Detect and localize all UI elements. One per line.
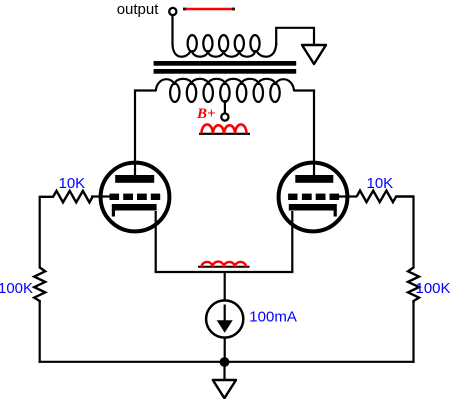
triode V1 plate lead [134, 161, 136, 176]
junction dot [220, 357, 230, 367]
transformer T1 primary winding [156, 79, 294, 91]
wire left vertical bottom [39, 302, 41, 363]
triode V1 grid [110, 194, 161, 200]
wire V2 cathode to bus [291, 211, 293, 272]
svg-text:100mA: 100mA [249, 309, 297, 326]
wire primary left end to V1 plate [135, 91, 156, 163]
annotation red line secondary highlight [183, 8, 235, 10]
transformer T1 secondary winding [173, 44, 277, 57]
wire right vertical bottom [412, 302, 414, 363]
annotation primary-half highlight underline [199, 133, 250, 135]
annotation red arches B+ [202, 124, 247, 133]
annotation red arches cathode [202, 262, 247, 267]
resistor R4 100K [408, 267, 419, 303]
triode V2 plate [295, 175, 333, 183]
cathode bus wire [155, 271, 294, 273]
svg-text:10K: 10K [367, 175, 394, 192]
current source I1 [206, 300, 243, 337]
triode V2 cathode [289, 204, 337, 217]
transformer core [154, 61, 297, 74]
ground top right [302, 45, 326, 64]
annotation cathode highlight underline [198, 266, 250, 268]
svg-text:100K: 100K [0, 280, 33, 297]
wire right vertical top [412, 195, 414, 268]
output terminal [169, 8, 176, 15]
svg-text:B+: B+ [196, 106, 216, 122]
triode V2 grid [288, 194, 339, 200]
triode V1 envelope [101, 163, 170, 232]
resistor R1 10K [40, 191, 93, 203]
wire V1 cathode to bus [155, 211, 157, 272]
wire secondary right end to top-right ground [276, 28, 314, 45]
resistor R2 100K [34, 267, 45, 303]
wire primary right end to V2 plate [294, 91, 314, 163]
triode V2 plate lead [313, 161, 315, 176]
svg-text:100K: 100K [416, 280, 450, 297]
triode V2 envelope [279, 163, 348, 232]
svg-text:10K: 10K [59, 175, 86, 192]
resistor R3 10K [357, 191, 414, 203]
wire junction to bottom ground [223, 362, 225, 380]
wire bus to current source [224, 272, 226, 300]
triode V1 plate [115, 175, 154, 183]
wire center tap [224, 100, 226, 113]
wire output terminal down to secondary [171, 15, 173, 45]
B+ terminal [221, 113, 228, 120]
wire V1 grid lead [91, 195, 110, 197]
ground bus bottom wire [39, 361, 415, 363]
wire V2 grid lead [338, 195, 357, 197]
ground bottom [213, 380, 236, 398]
triode V1 cathode [112, 204, 157, 217]
wire left vertical top [39, 196, 41, 268]
wire current source to ground bus [224, 338, 226, 362]
svg-text:output: output [117, 1, 160, 18]
